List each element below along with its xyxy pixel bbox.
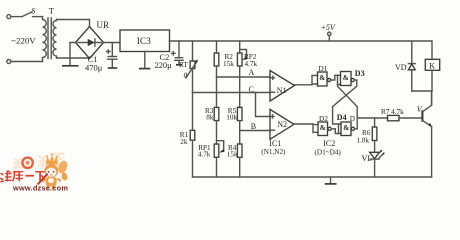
- svg-text:VL: VL: [362, 154, 373, 163]
- wire node A: [217, 76, 271, 78]
- svg-text:www.dzsc.com: www.dzsc.com: [12, 183, 68, 191]
- capacitor C1: [107, 43, 117, 68]
- svg-text:θ: θ: [184, 72, 188, 80]
- led VL: [362, 150, 385, 163]
- svg-text:1.8k: 1.8k: [357, 137, 370, 145]
- resistor R3: [214, 107, 219, 120]
- +5V rail wire: [170, 41, 433, 59]
- svg-text:RT: RT: [179, 61, 188, 69]
- svg-text:IC1: IC1: [269, 139, 281, 148]
- +5V terminal: [321, 23, 336, 41]
- svg-text:C: C: [249, 85, 254, 94]
- svg-text:T: T: [49, 6, 55, 16]
- switch S: [22, 6, 43, 16]
- nand gate D1: [312, 65, 331, 86]
- resistor R2: [214, 41, 219, 77]
- wire: [57, 20, 90, 27]
- svg-text:2k: 2k: [180, 138, 188, 146]
- nand gate D3: [338, 69, 365, 86]
- svg-text:&: &: [343, 124, 349, 132]
- wire: [294, 123, 313, 125]
- wire: [70, 43, 76, 59]
- AC terminal bottom: [7, 60, 11, 64]
- watermark: [0, 153, 69, 192]
- wire: [216, 121, 218, 144]
- wire: [331, 75, 338, 80]
- relay K: [425, 59, 439, 91]
- svg-text:R7 4.7k: R7 4.7k: [381, 108, 404, 116]
- wire: [104, 42, 121, 44]
- svg-text:D3: D3: [355, 69, 365, 78]
- wire: [374, 118, 376, 127]
- wire: [11, 16, 22, 18]
- svg-text:IC3: IC3: [137, 37, 151, 47]
- svg-text:10k: 10k: [226, 114, 237, 122]
- svg-text:220μ: 220μ: [155, 61, 173, 70]
- wire node B: [240, 130, 270, 132]
- svg-text:8k: 8k: [206, 114, 214, 122]
- wire: [412, 91, 432, 105]
- resistor R5: [237, 107, 242, 120]
- resistor R6: [372, 127, 377, 141]
- ground: [330, 177, 332, 183]
- wire: [374, 159, 376, 177]
- svg-text:D4: D4: [337, 113, 347, 122]
- svg-text:IC2: IC2: [323, 139, 335, 148]
- diode VD: [408, 41, 415, 91]
- wire: [256, 93, 271, 117]
- wire: [216, 77, 218, 107]
- wire latch feedback: [338, 85, 358, 129]
- svg-text:(N1,N2): (N1,N2): [261, 148, 286, 156]
- op-amp N2: [270, 109, 294, 139]
- AC terminal top: [7, 15, 11, 19]
- ground: [144, 52, 146, 68]
- svg-text:B: B: [251, 122, 256, 131]
- wire node C: [193, 92, 271, 94]
- svg-text:&: &: [343, 74, 349, 82]
- svg-text:D: D: [350, 115, 355, 123]
- svg-text:&: &: [319, 74, 325, 82]
- nand gate D4: [337, 113, 355, 135]
- svg-text:4.7k: 4.7k: [245, 60, 258, 68]
- thermistor RT: [179, 41, 198, 93]
- capacitor C2: [172, 41, 184, 65]
- transformer core: [48, 18, 51, 59]
- svg-text:N2: N2: [277, 120, 287, 129]
- svg-text:D2: D2: [319, 115, 328, 123]
- wire: [355, 128, 358, 130]
- svg-text:D1: D1: [319, 65, 328, 73]
- wire: [357, 117, 387, 119]
- potentiometer RP2: [237, 41, 247, 77]
- transformer T secondary winding: [53, 20, 57, 59]
- svg-text:15k: 15k: [227, 151, 238, 159]
- op-amp N1: [270, 71, 295, 102]
- svg-text:UR: UR: [97, 20, 110, 30]
- svg-text:15k: 15k: [223, 60, 234, 68]
- svg-text:~220V: ~220V: [11, 36, 36, 46]
- svg-text:&: &: [320, 124, 326, 132]
- svg-text:4.7k: 4.7k: [198, 151, 211, 159]
- svg-text:(D1~D4): (D1~D4): [315, 149, 342, 157]
- resistor R7: [388, 115, 400, 120]
- wire: [374, 141, 376, 153]
- svg-text:VD: VD: [395, 63, 407, 72]
- wire: [331, 129, 338, 134]
- transformer T primary winding: [43, 17, 47, 62]
- wire: [239, 77, 241, 107]
- wire: [295, 84, 313, 86]
- resistor R4: [237, 131, 242, 178]
- ground: [69, 58, 71, 65]
- voltage regulator IC3: [120, 30, 170, 52]
- wire: [11, 61, 43, 63]
- svg-text:470μ: 470μ: [85, 62, 103, 72]
- transistor V: [417, 91, 432, 177]
- svg-text:S: S: [31, 6, 35, 15]
- svg-text:K: K: [429, 61, 435, 70]
- wire latch feedback: [333, 80, 357, 124]
- ground: [108, 67, 117, 69]
- wire: [399, 117, 422, 119]
- svg-text:N1: N1: [277, 86, 287, 95]
- nand gate D2: [313, 115, 331, 135]
- resistor R1: [190, 93, 195, 178]
- wire bottom rail: [193, 176, 432, 178]
- svg-text:+5V: +5V: [321, 23, 336, 32]
- svg-text:A: A: [249, 68, 255, 77]
- bridge rectifier UR: [76, 27, 104, 59]
- wire: [57, 57, 90, 59]
- wire: [239, 121, 241, 131]
- potentiometer RP1: [214, 141, 224, 177]
